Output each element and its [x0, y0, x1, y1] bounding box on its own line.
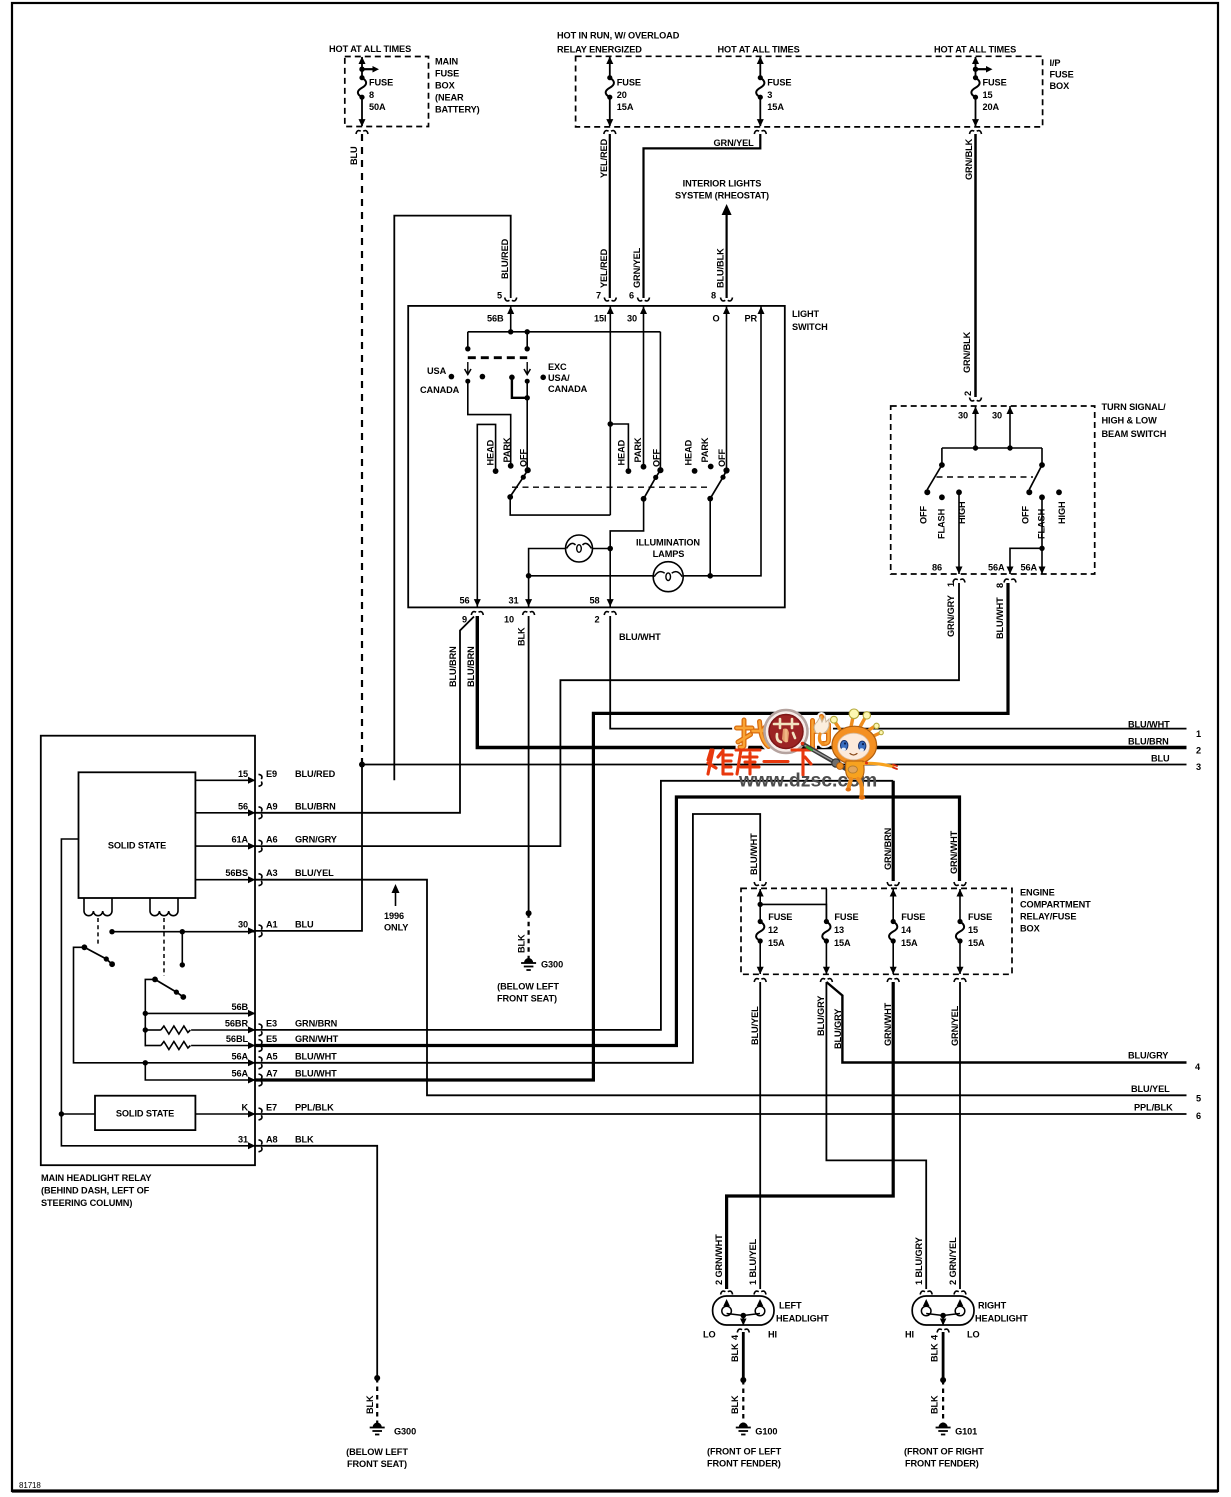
- svg-text:56: 56: [460, 596, 470, 606]
- svg-text:56: 56: [238, 801, 248, 811]
- svg-text:15A: 15A: [767, 102, 784, 112]
- svg-text:BLK: BLK: [365, 1395, 375, 1414]
- svg-text:31: 31: [509, 596, 519, 606]
- svg-text:(FRONT OF LEFT: (FRONT OF LEFT: [707, 1447, 782, 1457]
- svg-text:HI: HI: [905, 1330, 914, 1340]
- svg-text:USA: USA: [427, 366, 447, 376]
- svg-text:HOT AT ALL TIMES: HOT AT ALL TIMES: [934, 45, 1016, 55]
- svg-text:TURN SIGNAL/: TURN SIGNAL/: [1102, 402, 1167, 412]
- svg-text:7: 7: [596, 291, 601, 301]
- svg-text:BLK: BLK: [295, 1134, 314, 1144]
- svg-text:(NEAR: (NEAR: [435, 93, 464, 103]
- svg-text:CANADA: CANADA: [420, 385, 460, 395]
- svg-text:YEL/RED: YEL/RED: [599, 248, 609, 288]
- svg-text:INTERIOR LIGHTS: INTERIOR LIGHTS: [683, 179, 762, 189]
- svg-text:15: 15: [238, 769, 248, 779]
- svg-text:31: 31: [238, 1134, 248, 1144]
- svg-text:10: 10: [504, 615, 514, 625]
- svg-text:GRN/WHT: GRN/WHT: [883, 1002, 893, 1046]
- svg-text:BLK: BLK: [517, 934, 527, 953]
- svg-text:3: 3: [1196, 762, 1201, 772]
- svg-text:56B: 56B: [487, 314, 504, 324]
- svg-text:15: 15: [983, 90, 993, 100]
- svg-text:BLU/WHT: BLU/WHT: [749, 833, 759, 875]
- svg-text:56BL: 56BL: [226, 1034, 249, 1044]
- svg-text:SOLID STATE: SOLID STATE: [116, 1109, 174, 1119]
- svg-text:BLU/WHT: BLU/WHT: [1128, 720, 1170, 730]
- svg-text:2: 2: [595, 615, 600, 625]
- svg-text:BLK: BLK: [930, 1395, 940, 1414]
- svg-text:FUSE: FUSE: [617, 78, 641, 88]
- svg-text:61A: 61A: [231, 835, 248, 845]
- svg-text:ONLY: ONLY: [384, 923, 408, 933]
- svg-text:A5: A5: [266, 1051, 278, 1061]
- svg-text:30: 30: [627, 314, 637, 324]
- svg-text:A3: A3: [266, 868, 278, 878]
- svg-text:STEERING COLUMN): STEERING COLUMN): [41, 1198, 132, 1208]
- svg-text:LO: LO: [703, 1330, 716, 1340]
- svg-text:RIGHT: RIGHT: [978, 1301, 1007, 1311]
- svg-text:HIGH: HIGH: [1057, 501, 1067, 524]
- svg-text:GRN/BRN: GRN/BRN: [883, 827, 893, 870]
- svg-text:A6: A6: [266, 835, 278, 845]
- svg-text:G101: G101: [955, 1427, 977, 1437]
- svg-text:6: 6: [629, 291, 634, 301]
- svg-text:15A: 15A: [617, 102, 634, 112]
- svg-text:HOT IN RUN, W/ OVERLOAD: HOT IN RUN, W/ OVERLOAD: [557, 31, 680, 41]
- svg-text:BLU/BRN: BLU/BRN: [466, 646, 476, 687]
- svg-text:BLU/WHT: BLU/WHT: [295, 1069, 337, 1079]
- svg-text:FRONT SEAT): FRONT SEAT): [347, 1459, 407, 1469]
- svg-text:5: 5: [1196, 1094, 1201, 1104]
- svg-text:LO: LO: [967, 1330, 980, 1340]
- svg-text:2: 2: [1196, 746, 1201, 756]
- svg-text:81718: 81718: [19, 1481, 41, 1490]
- svg-text:LEFT: LEFT: [779, 1301, 802, 1311]
- svg-text:15A: 15A: [968, 938, 985, 948]
- svg-text:HEADLIGHT: HEADLIGHT: [776, 1314, 829, 1324]
- svg-text:2: 2: [963, 391, 973, 396]
- svg-text:56A: 56A: [231, 1069, 248, 1079]
- svg-text:FLASH: FLASH: [937, 508, 947, 539]
- svg-text:BLK: BLK: [930, 1343, 940, 1362]
- svg-text:FUSE: FUSE: [768, 912, 792, 922]
- svg-text:BLU/BLK: BLU/BLK: [716, 248, 726, 288]
- svg-text:1 BLU/YEL: 1 BLU/YEL: [748, 1238, 758, 1285]
- svg-text:(FRONT OF RIGHT: (FRONT OF RIGHT: [904, 1447, 984, 1457]
- svg-text:BLK: BLK: [517, 627, 527, 646]
- svg-text:30: 30: [992, 411, 1002, 421]
- svg-text:A8: A8: [266, 1134, 278, 1144]
- svg-text:BLU/WHT: BLU/WHT: [995, 597, 1005, 639]
- svg-text:OFF: OFF: [919, 505, 929, 524]
- svg-text:30: 30: [238, 919, 248, 929]
- svg-text:BEAM SWITCH: BEAM SWITCH: [1102, 429, 1167, 439]
- svg-text:BATTERY): BATTERY): [435, 105, 480, 115]
- svg-text:FRONT FENDER): FRONT FENDER): [707, 1459, 781, 1469]
- svg-text:COMPARTMENT: COMPARTMENT: [1020, 900, 1091, 910]
- svg-text:A1: A1: [266, 919, 278, 929]
- svg-text:86: 86: [932, 563, 942, 573]
- svg-text:56A: 56A: [1021, 563, 1038, 573]
- svg-text:SOLID STATE: SOLID STATE: [108, 841, 166, 851]
- svg-text:1: 1: [1196, 729, 1201, 739]
- svg-text:PPL/BLK: PPL/BLK: [1134, 1103, 1173, 1113]
- svg-text:BLU: BLU: [1151, 754, 1170, 764]
- svg-text:BLU/BRN: BLU/BRN: [295, 801, 336, 811]
- svg-text:12: 12: [768, 925, 778, 935]
- svg-text:GRN/WHT: GRN/WHT: [949, 830, 959, 874]
- svg-text:I/P: I/P: [1050, 58, 1061, 68]
- svg-text:E5: E5: [266, 1034, 277, 1044]
- svg-text:BLU/YEL: BLU/YEL: [750, 1006, 760, 1045]
- svg-text:HEAD: HEAD: [684, 439, 694, 465]
- svg-text:6: 6: [1196, 1111, 1201, 1121]
- svg-text:G300: G300: [541, 960, 563, 970]
- svg-text:BLU/WHT: BLU/WHT: [619, 632, 661, 642]
- svg-text:8: 8: [369, 90, 374, 100]
- svg-text:BLU/YEL: BLU/YEL: [295, 868, 334, 878]
- svg-text:G300: G300: [394, 1427, 416, 1437]
- svg-text:30: 30: [958, 411, 968, 421]
- svg-text:HIGH & LOW: HIGH & LOW: [1102, 416, 1158, 426]
- svg-text:56A: 56A: [988, 563, 1005, 573]
- svg-text:BLU/GRY: BLU/GRY: [1128, 1051, 1168, 1061]
- svg-text:BLK: BLK: [730, 1343, 740, 1362]
- svg-text:EXC: EXC: [548, 362, 567, 372]
- svg-text:8: 8: [711, 291, 716, 301]
- svg-text:GRN/GRY: GRN/GRY: [946, 595, 956, 637]
- svg-text:56BR: 56BR: [225, 1018, 249, 1028]
- svg-text:15: 15: [968, 925, 978, 935]
- svg-text:GRN/YEL: GRN/YEL: [714, 138, 755, 148]
- svg-text:HEAD: HEAD: [617, 439, 627, 465]
- svg-text:PARK: PARK: [502, 437, 512, 462]
- svg-text:K: K: [241, 1103, 248, 1113]
- svg-text:15I: 15I: [594, 314, 606, 324]
- svg-text:BOX: BOX: [1050, 81, 1071, 91]
- svg-text:GRN/WHT: GRN/WHT: [295, 1034, 339, 1044]
- svg-text:E7: E7: [266, 1103, 277, 1113]
- svg-text:PR: PR: [745, 314, 758, 324]
- svg-text:FUSE: FUSE: [369, 78, 393, 88]
- svg-text:5: 5: [497, 291, 502, 301]
- svg-text:HI: HI: [768, 1330, 777, 1340]
- svg-text:FUSE: FUSE: [767, 78, 791, 88]
- svg-text:RELAY/FUSE: RELAY/FUSE: [1020, 912, 1076, 922]
- svg-text:15A: 15A: [901, 938, 918, 948]
- svg-text:RELAY ENERGIZED: RELAY ENERGIZED: [557, 45, 642, 55]
- svg-text:GRN/BRN: GRN/BRN: [295, 1018, 338, 1028]
- svg-text:LIGHT: LIGHT: [792, 309, 820, 319]
- svg-text:FUSE: FUSE: [901, 912, 925, 922]
- svg-text:56B: 56B: [231, 1002, 248, 1012]
- svg-text:BLU/RED: BLU/RED: [295, 769, 336, 779]
- svg-text:A9: A9: [266, 801, 278, 811]
- svg-text:USA/: USA/: [548, 373, 570, 383]
- svg-text:13: 13: [834, 925, 844, 935]
- svg-text:BOX: BOX: [435, 81, 456, 91]
- svg-text:50A: 50A: [369, 102, 386, 112]
- svg-text:HEAD: HEAD: [486, 439, 496, 465]
- svg-text:1996: 1996: [384, 911, 404, 921]
- svg-text:BLU: BLU: [295, 919, 314, 929]
- svg-text:G100: G100: [755, 1427, 777, 1437]
- svg-text:58: 58: [590, 596, 600, 606]
- svg-text:GRN/YEL: GRN/YEL: [632, 247, 642, 288]
- svg-text:GRN/GRY: GRN/GRY: [295, 835, 337, 845]
- svg-text:BLU/RED: BLU/RED: [500, 238, 510, 279]
- svg-text:(BELOW LEFT: (BELOW LEFT: [346, 1447, 408, 1457]
- svg-text:E3: E3: [266, 1018, 277, 1028]
- svg-text:BLU/WHT: BLU/WHT: [295, 1051, 337, 1061]
- svg-text:BLU: BLU: [349, 146, 359, 165]
- svg-text:OFF: OFF: [652, 448, 662, 467]
- svg-text:A7: A7: [266, 1069, 278, 1079]
- svg-text:56A: 56A: [231, 1051, 248, 1061]
- svg-text:PARK: PARK: [633, 437, 643, 462]
- svg-text:FRONT SEAT): FRONT SEAT): [497, 994, 557, 1004]
- svg-text:YEL/RED: YEL/RED: [599, 138, 609, 178]
- svg-text:ILLUMINATION: ILLUMINATION: [636, 538, 700, 548]
- svg-text:HEADLIGHT: HEADLIGHT: [975, 1314, 1028, 1324]
- svg-text:MAIN: MAIN: [435, 57, 459, 67]
- svg-text:PPL/BLK: PPL/BLK: [295, 1103, 334, 1113]
- svg-text:15A: 15A: [768, 938, 785, 948]
- svg-text:E9: E9: [266, 769, 277, 779]
- svg-text:GRN/BLK: GRN/BLK: [964, 138, 974, 180]
- svg-text:CANADA: CANADA: [548, 384, 588, 394]
- svg-text:OFF: OFF: [519, 448, 529, 467]
- svg-text:8: 8: [995, 583, 1005, 588]
- svg-text:56BS: 56BS: [225, 868, 248, 878]
- svg-text:3: 3: [767, 90, 772, 100]
- svg-text:FUSE: FUSE: [968, 912, 992, 922]
- svg-text:BOX: BOX: [1020, 924, 1041, 934]
- svg-text:LAMPS: LAMPS: [653, 549, 685, 559]
- svg-text:BLK: BLK: [730, 1395, 740, 1414]
- svg-text:1: 1: [946, 582, 956, 587]
- svg-text:ENGINE: ENGINE: [1020, 888, 1055, 898]
- svg-text:SWITCH: SWITCH: [792, 322, 828, 332]
- svg-text:GRN/YEL: GRN/YEL: [950, 1005, 960, 1046]
- svg-text:BLU/BRN: BLU/BRN: [448, 646, 458, 687]
- svg-text:15A: 15A: [834, 938, 851, 948]
- svg-text:14: 14: [901, 925, 912, 935]
- svg-text:FUSE: FUSE: [834, 912, 858, 922]
- svg-text:2 GRN/WHT: 2 GRN/WHT: [714, 1234, 724, 1285]
- svg-text:SYSTEM (RHEOSTAT): SYSTEM (RHEOSTAT): [675, 191, 769, 201]
- svg-text:2 GRN/YEL: 2 GRN/YEL: [948, 1237, 958, 1285]
- svg-text:MAIN HEADLIGHT RELAY: MAIN HEADLIGHT RELAY: [41, 1173, 151, 1183]
- svg-text:HOT AT ALL TIMES: HOT AT ALL TIMES: [718, 45, 800, 55]
- svg-text:FUSE: FUSE: [1050, 70, 1074, 80]
- svg-text:GRN/BLK: GRN/BLK: [962, 331, 972, 373]
- svg-text:BLU/GRY: BLU/GRY: [816, 996, 826, 1036]
- svg-text:BLU/YEL: BLU/YEL: [1131, 1084, 1170, 1094]
- svg-text:O: O: [713, 314, 720, 324]
- svg-text:BLU/BRN: BLU/BRN: [1128, 737, 1169, 747]
- svg-text:OFF: OFF: [717, 448, 727, 467]
- svg-text:1 BLU/GRY: 1 BLU/GRY: [914, 1237, 924, 1285]
- svg-text:PARK: PARK: [700, 437, 710, 462]
- svg-text:(BELOW LEFT: (BELOW LEFT: [497, 982, 559, 992]
- svg-text:OFF: OFF: [1021, 505, 1031, 524]
- svg-text:FUSE: FUSE: [983, 78, 1007, 88]
- svg-text:20A: 20A: [983, 102, 1000, 112]
- svg-text:HOT AT ALL TIMES: HOT AT ALL TIMES: [329, 44, 411, 54]
- svg-text:(BEHIND DASH, LEFT OF: (BEHIND DASH, LEFT OF: [41, 1186, 150, 1196]
- svg-text:FRONT FENDER): FRONT FENDER): [905, 1459, 979, 1469]
- svg-text:FUSE: FUSE: [435, 69, 459, 79]
- svg-text:20: 20: [617, 90, 627, 100]
- svg-text:BLU/GRY: BLU/GRY: [833, 1009, 843, 1049]
